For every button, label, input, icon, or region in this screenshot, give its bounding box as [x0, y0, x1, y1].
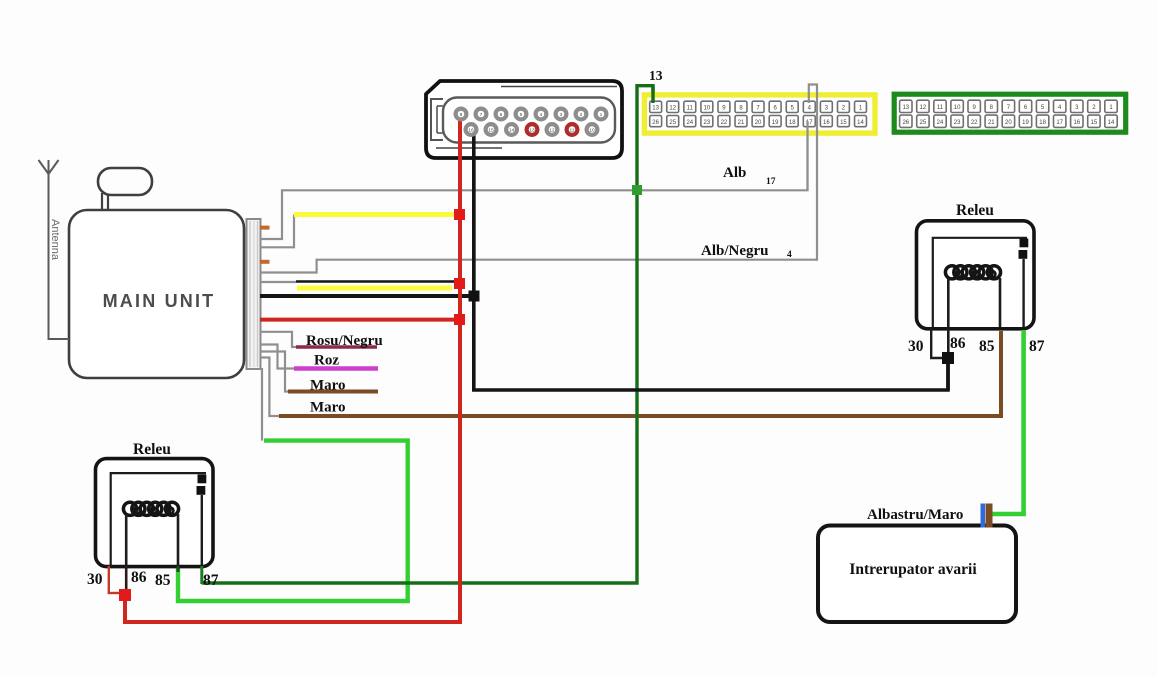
- svg-text:21: 21: [738, 120, 745, 126]
- svg-text:17: 17: [766, 177, 776, 187]
- svg-text:87: 87: [203, 572, 219, 589]
- svg-text:4: 4: [540, 112, 543, 118]
- svg-text:13: 13: [652, 106, 659, 112]
- svg-text:24: 24: [937, 120, 944, 126]
- svg-text:22: 22: [721, 120, 728, 126]
- svg-text:20: 20: [755, 120, 762, 126]
- svg-text:14: 14: [1108, 120, 1115, 126]
- svg-text:30: 30: [908, 338, 924, 355]
- svg-text:3: 3: [560, 112, 563, 118]
- svg-text:26: 26: [902, 120, 909, 126]
- svg-text:21: 21: [988, 120, 995, 126]
- svg-text:16: 16: [823, 120, 830, 126]
- svg-text:Intrerupator avarii: Intrerupator avarii: [849, 561, 977, 578]
- svg-text:Albastru/Maro: Albastru/Maro: [867, 507, 963, 523]
- svg-text:12: 12: [549, 127, 555, 133]
- svg-text:Alb/Negru: Alb/Negru: [701, 243, 769, 259]
- svg-text:6: 6: [500, 112, 503, 118]
- svg-text:11: 11: [570, 127, 575, 133]
- svg-text:Rosu/Negru: Rosu/Negru: [306, 333, 383, 349]
- svg-text:10: 10: [954, 105, 961, 111]
- svg-text:10: 10: [589, 127, 595, 133]
- svg-text:86: 86: [950, 335, 966, 352]
- svg-text:Maro: Maro: [310, 400, 346, 416]
- svg-text:14: 14: [857, 120, 864, 126]
- svg-text:16: 16: [1073, 120, 1080, 126]
- svg-text:5: 5: [520, 112, 523, 118]
- svg-text:85: 85: [155, 572, 171, 589]
- svg-text:Roz: Roz: [314, 353, 339, 369]
- svg-text:20: 20: [1005, 120, 1012, 126]
- svg-text:87: 87: [1029, 338, 1045, 355]
- svg-text:19: 19: [772, 120, 779, 126]
- svg-text:15: 15: [1091, 120, 1098, 126]
- svg-text:18: 18: [789, 120, 796, 126]
- svg-text:Releu: Releu: [956, 202, 994, 219]
- svg-text:Maro: Maro: [310, 378, 346, 394]
- svg-text:18: 18: [1039, 120, 1046, 126]
- svg-text:11: 11: [937, 105, 944, 111]
- svg-text:86: 86: [131, 569, 147, 586]
- svg-text:19: 19: [1022, 120, 1029, 126]
- svg-text:15: 15: [840, 120, 847, 126]
- svg-text:10: 10: [704, 106, 711, 112]
- svg-text:26: 26: [652, 120, 659, 126]
- svg-text:15: 15: [488, 127, 494, 133]
- svg-text:23: 23: [954, 120, 961, 126]
- svg-text:13: 13: [649, 68, 663, 83]
- svg-text:4: 4: [787, 250, 792, 260]
- svg-text:MAIN UNIT: MAIN UNIT: [103, 291, 216, 311]
- svg-text:13: 13: [529, 127, 535, 133]
- svg-text:25: 25: [920, 120, 927, 126]
- svg-text:1: 1: [600, 112, 603, 118]
- svg-text:12: 12: [669, 106, 676, 112]
- svg-text:85: 85: [979, 338, 995, 355]
- svg-text:14: 14: [509, 127, 515, 133]
- svg-text:22: 22: [971, 120, 978, 126]
- svg-text:2: 2: [580, 112, 583, 118]
- svg-text:12: 12: [920, 105, 927, 111]
- svg-text:25: 25: [669, 120, 676, 126]
- svg-text:30: 30: [87, 571, 103, 588]
- svg-text:11: 11: [687, 106, 694, 112]
- svg-text:23: 23: [704, 120, 711, 126]
- svg-text:Alb: Alb: [723, 165, 746, 181]
- svg-text:17: 17: [1056, 120, 1063, 126]
- svg-text:7: 7: [480, 112, 483, 118]
- svg-text:13: 13: [902, 105, 909, 111]
- svg-text:Antenna: Antenna: [49, 219, 61, 261]
- svg-text:16: 16: [468, 127, 474, 133]
- svg-text:Releu: Releu: [133, 441, 171, 458]
- svg-text:8: 8: [460, 112, 463, 118]
- svg-text:24: 24: [686, 120, 693, 126]
